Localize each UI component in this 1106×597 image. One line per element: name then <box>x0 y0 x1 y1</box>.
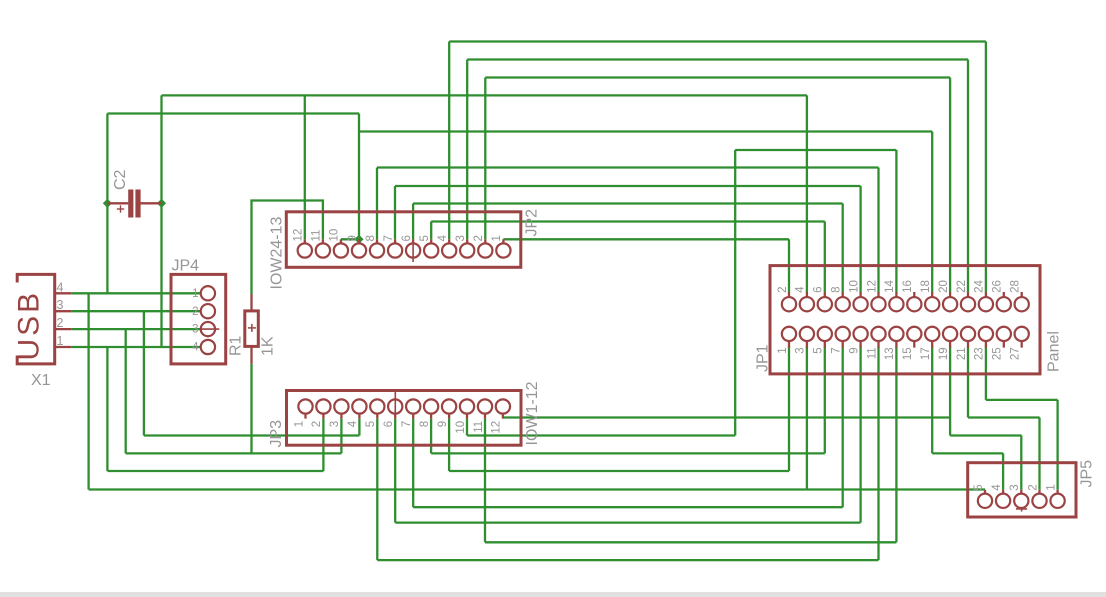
wire riser JP1 top pin 12 <box>877 168 879 293</box>
svg-text:10: 10 <box>455 421 467 434</box>
wire net JP2.8-JP1.12 <box>377 166 879 168</box>
wire drop JP3 pin 7 <box>412 419 414 508</box>
wire net JP2.4-JP1.24 top <box>449 40 986 42</box>
svg-text:2: 2 <box>1027 484 1039 490</box>
svg-text:6: 6 <box>401 235 413 241</box>
connector JP5 pin circles <box>978 494 992 508</box>
wire net GND C2-left to JP2.9 <box>107 112 359 114</box>
svg-text:9: 9 <box>437 421 449 427</box>
wire riser JP1 top pin 18 <box>931 132 933 293</box>
wire net JP2.5-JP1.6 <box>431 220 825 222</box>
wire drop JP1 bottom pin 7 <box>842 347 844 508</box>
wire riser JP1 top pin 24 <box>985 42 987 293</box>
resistor R1 bottom lead <box>250 346 252 363</box>
svg-text:2: 2 <box>57 316 64 330</box>
JP3 pin 6 long pin line <box>394 391 396 414</box>
svg-text:14: 14 <box>884 280 896 293</box>
wire USB pin 3 to JP4 pin 2 <box>72 310 201 312</box>
connector X1 USB box <box>17 274 55 364</box>
svg-text:9: 9 <box>848 347 860 353</box>
wire drop JP3 pin 4 <box>358 419 360 436</box>
svg-text:1: 1 <box>293 421 305 427</box>
junction C2 right <box>157 199 166 208</box>
svg-text:USB: USB <box>13 290 46 361</box>
svg-text:2: 2 <box>473 235 485 241</box>
svg-text:IOW1-12: IOW1-12 <box>524 381 541 445</box>
svg-text:2: 2 <box>311 421 323 427</box>
svg-text:4: 4 <box>192 342 199 354</box>
capacitor C2 right lead <box>141 202 162 204</box>
wire rail JP3.10 to x735 riser <box>467 434 735 436</box>
wire riser JP1 top pin 8 <box>842 204 844 293</box>
wire drop to JP2 pin 9 <box>358 114 360 240</box>
wire rail USB.2 to JP3.3 <box>126 452 342 454</box>
svg-text:3: 3 <box>329 421 341 427</box>
svg-text:15: 15 <box>902 347 914 360</box>
JP1 bottom pin stubs <box>789 341 1022 348</box>
wire net GND to JP1.18 <box>359 130 932 132</box>
svg-text:27: 27 <box>1010 347 1022 360</box>
wire rail JP3.11 to JP1.13 <box>485 541 896 543</box>
svg-text:26: 26 <box>992 280 1004 293</box>
wire drop JP3 pin 5 <box>376 419 378 560</box>
JP1 top pin stubs <box>789 292 1022 297</box>
svg-text:17: 17 <box>920 347 932 360</box>
wire riser JP1 top pin 14 <box>895 150 897 292</box>
resistor R1 top lead <box>250 294 252 311</box>
svg-text:5: 5 <box>813 347 825 353</box>
wire drop JP1 bottom pin 5 <box>824 347 826 454</box>
wire drop JP1 bottom pin 3 <box>806 347 808 490</box>
wire drop JP3 pin 2 <box>322 419 324 471</box>
svg-text:6: 6 <box>813 286 825 292</box>
wire drop JP3 pin 6 <box>394 419 396 523</box>
svg-text:1: 1 <box>491 235 503 241</box>
wire net JP3.10-JP1.14 top <box>735 149 896 151</box>
wire riser JP1 top pin 22 <box>967 60 969 293</box>
resistor R1 body <box>245 311 258 347</box>
svg-text:4: 4 <box>991 484 1003 491</box>
wire USB.4 down to GND bottom rail <box>87 293 89 489</box>
wire JP3.10 rail up to JP1.14 line <box>734 150 736 436</box>
capacitor C2 left plate <box>128 190 133 218</box>
JP2 pin stubs <box>305 239 504 243</box>
svg-text:JP5: JP5 <box>1079 460 1096 488</box>
wire drop JP1 bottom pin 23 <box>985 347 987 400</box>
wire drop to JP2 pin 7 <box>394 186 396 239</box>
svg-text:4: 4 <box>795 286 807 293</box>
svg-text:JP3: JP3 <box>268 420 285 448</box>
svg-text:6: 6 <box>383 421 395 427</box>
wire drop JP3 pin 9 <box>448 419 450 471</box>
wire drop JP1 bottom pin 11 <box>877 347 879 561</box>
svg-text:JP1: JP1 <box>755 344 772 372</box>
wire USB pin 4 to JP4 pin 1 <box>72 292 201 294</box>
svg-text:10: 10 <box>329 229 341 242</box>
wire drop to JP2 pin 5 <box>430 222 432 240</box>
svg-text:1: 1 <box>192 288 198 300</box>
svg-text:12: 12 <box>293 229 305 242</box>
wire rail GND long (USB.4 to JP5.5) <box>89 488 985 490</box>
JP2 pin 6 long pin line <box>412 243 414 262</box>
capacitor C2 right plate <box>135 190 140 218</box>
svg-text:X1: X1 <box>31 372 51 389</box>
junction C2 left <box>103 199 112 208</box>
JP5 pin 3 long pin line <box>1021 508 1023 512</box>
resistor R1 plus mark <box>248 327 256 329</box>
svg-text:7: 7 <box>831 347 843 353</box>
svg-text:7: 7 <box>383 235 395 241</box>
wire drop JP3 pin 10 <box>466 419 468 436</box>
wire R1 top to JP2.11 <box>252 201 323 295</box>
connector JP4 box <box>171 274 226 364</box>
wire drop to JP2 pin 8 <box>376 168 378 240</box>
wire drop to JP2 pin 3 <box>466 60 468 240</box>
wire drop to JP2 pin 4 <box>448 42 450 240</box>
wire C2 left vertical (113.5 to USB.4 line) <box>106 114 108 294</box>
connector JP2 pin circles <box>298 243 312 257</box>
svg-text:3: 3 <box>57 298 64 312</box>
capacitor C2 left lead <box>107 202 128 204</box>
wire drop to JP2 pin 2 <box>484 78 486 240</box>
wire riser JP1 top pin 20 <box>949 78 951 293</box>
svg-text:3: 3 <box>455 235 467 241</box>
wire drop JP3 pin 8 <box>430 419 432 454</box>
wire riser JP1 top pin 2 <box>788 239 790 292</box>
wire net JP2.3-JP1.22 top <box>467 58 968 60</box>
connector JP3 box <box>287 391 522 446</box>
svg-text:20: 20 <box>938 280 950 293</box>
connector JP2 box <box>286 212 521 267</box>
svg-text:12: 12 <box>866 280 878 293</box>
wire net JP2.7-JP1.10 <box>395 185 861 187</box>
wire drop JP3 pin 3 <box>340 419 342 454</box>
svg-text:16: 16 <box>902 280 914 293</box>
wire riser JP5 pin 2 <box>1038 418 1040 490</box>
wire drop JP1 bottom pin 17 <box>931 347 933 454</box>
svg-text:3: 3 <box>1009 484 1021 490</box>
svg-text:18: 18 <box>920 280 932 293</box>
wire USB pin 2 to JP4 pin 3 <box>72 328 201 330</box>
svg-text:4: 4 <box>57 280 64 294</box>
connector JP5 box <box>968 463 1076 517</box>
svg-text:R1: R1 <box>228 335 245 356</box>
svg-text:JP2: JP2 <box>524 209 541 237</box>
svg-text:1K: 1K <box>260 336 277 356</box>
wire USB.2 down to JP3.3 rail <box>125 329 127 453</box>
wire drop JP1 bottom pin 13 <box>895 347 897 543</box>
wire riser JP5 pin 3 <box>1020 436 1022 490</box>
svg-text:13: 13 <box>884 347 896 360</box>
svg-text:C2: C2 <box>112 169 129 190</box>
svg-text:10: 10 <box>848 280 860 293</box>
wire rail JP3.8 to JP1.5 <box>431 452 825 454</box>
capacitor C2 plus mark <box>117 208 124 210</box>
svg-text:22: 22 <box>956 280 968 293</box>
wire rail JP1.21 to JP5.2 <box>968 416 1040 418</box>
svg-text:21: 21 <box>956 347 968 360</box>
svg-text:9: 9 <box>347 235 359 241</box>
wire riser JP5 pin 1 <box>1056 400 1058 490</box>
wire JP3 pin 12 to rail <box>502 416 504 418</box>
wire drop to JP2 pin 6 <box>412 204 414 240</box>
wire drop JP1 bottom pin 1 <box>788 347 790 472</box>
svg-text:3: 3 <box>795 347 807 353</box>
wire riser JP1 top pin 4 <box>806 95 808 292</box>
svg-text:4: 4 <box>347 420 359 427</box>
wire rail JP3.5 to JP1.11 <box>377 559 878 561</box>
svg-text:24: 24 <box>974 280 986 293</box>
wire USB.1 line down to JP3.2 rail <box>106 347 108 471</box>
wire riser JP5 pin 4 <box>1002 453 1004 489</box>
wire drop JP1 bottom pin 19 <box>949 347 951 436</box>
wire drop JP1 bottom pin 21 <box>967 347 969 418</box>
svg-text:4: 4 <box>437 235 449 242</box>
wire riser JP1 top pin 10 <box>859 186 861 292</box>
wire JP2.10 bridge to JP2.9 junction <box>341 238 359 240</box>
svg-text:5: 5 <box>419 235 431 241</box>
svg-text:8: 8 <box>419 421 431 427</box>
USB X1 pin stubs <box>55 293 72 347</box>
connector JP4 pin circles <box>201 286 215 300</box>
svg-text:19: 19 <box>938 347 950 360</box>
wire rail USB.3 to JP3.4 <box>144 434 360 436</box>
wire rail JP3.12 to JP1.19 riser <box>503 416 950 418</box>
wire rail JP3.9 to JP1.1 <box>449 470 789 472</box>
wire net JP2.6-JP1.8 <box>413 202 843 204</box>
svg-text:2: 2 <box>192 306 198 318</box>
svg-text:3: 3 <box>192 324 198 336</box>
svg-text:8: 8 <box>831 286 843 292</box>
svg-text:11: 11 <box>311 230 323 242</box>
svg-text:IOW24-13: IOW24-13 <box>269 216 286 289</box>
svg-text:23: 23 <box>974 347 986 360</box>
wire USB pin 1 to JP4 pin 4 <box>72 346 201 348</box>
wire net VCC top (C2 right to JP1.4) <box>162 94 807 96</box>
wire drop JP1 bottom pin 9 <box>859 347 861 523</box>
svg-text:5: 5 <box>973 484 985 490</box>
wire rail USB.1 to JP3.2 <box>107 470 323 472</box>
svg-text:Panel: Panel <box>1046 331 1063 372</box>
connector JP1 bottom pin circles <box>782 327 796 341</box>
JP5 pin stubs <box>985 490 1058 494</box>
wire USB.3 down to JP3.4 rail <box>143 311 145 435</box>
wire drop to JP2 pin 12 <box>304 95 306 239</box>
svg-text:8: 8 <box>365 235 377 241</box>
connector JP3 pin circles <box>298 399 312 413</box>
svg-text:28: 28 <box>1010 280 1022 293</box>
connector JP1 top pin circles <box>782 297 796 311</box>
wire VCC top down through C2 right to USB.1 line <box>160 95 162 347</box>
wire drop JP3 pin 11 <box>484 419 486 543</box>
svg-text:1: 1 <box>1045 484 1057 490</box>
svg-text:1: 1 <box>777 347 789 353</box>
svg-text:7: 7 <box>401 421 413 427</box>
wire rail JP1.19 to JP5.3 <box>950 434 1022 436</box>
svg-text:JP4: JP4 <box>172 258 200 275</box>
wire R1 bottom down to JP3.3 rail <box>250 364 252 454</box>
connector JP1 box <box>770 266 1040 374</box>
JP4 pin 3 long pin line <box>201 328 219 330</box>
JP3 pin stubs <box>306 414 503 419</box>
wire rail JP3.6 to JP1.9 <box>395 521 860 523</box>
svg-text:12: 12 <box>491 421 503 434</box>
svg-text:11: 11 <box>866 347 878 359</box>
svg-text:2: 2 <box>777 286 789 292</box>
svg-text:1: 1 <box>57 334 64 348</box>
wire rail JP1.23 to JP5.1 <box>986 399 1058 401</box>
wire rail JP3.7 to JP1.7 <box>413 506 843 508</box>
wire riser JP1 top pin 6 <box>824 222 826 293</box>
wire rail JP1.17 to JP5.4 <box>932 452 1003 454</box>
junction JP2 pin 9 <box>354 235 363 244</box>
wire net JP2.1-JP1.2 <box>503 238 789 240</box>
svg-text:25: 25 <box>992 347 1004 360</box>
wire net JP2.2-JP1.20 top <box>485 76 950 78</box>
svg-text:5: 5 <box>365 421 377 427</box>
svg-text:11: 11 <box>473 421 485 433</box>
bottom gray bar <box>0 592 1106 597</box>
